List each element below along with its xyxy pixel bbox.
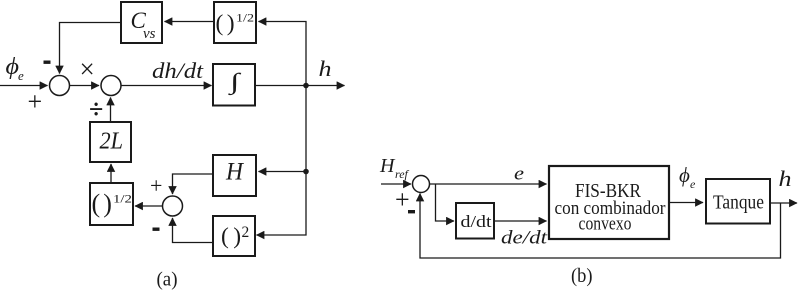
svg-text:vs: vs xyxy=(143,26,156,42)
wire sqrt top to Cvs xyxy=(165,21,215,23)
wire squarer to S2 minus input xyxy=(173,218,214,243)
summing junction S1 xyxy=(50,76,70,96)
svg-text:1/2: 1/2 xyxy=(113,191,132,205)
wire branch to H block xyxy=(259,171,307,173)
svg-text:ϕ: ϕ xyxy=(679,163,690,187)
svg-text:): ) xyxy=(227,11,235,37)
svg-text:(b): (b) xyxy=(571,265,593,287)
wire S1 to multiplier M1 xyxy=(70,85,100,87)
svg-text:Tanque: Tanque xyxy=(713,192,764,214)
wire M1 to integrator xyxy=(121,85,212,87)
squarer block xyxy=(213,216,255,256)
svg-text:h: h xyxy=(319,56,332,81)
gain block Cvs xyxy=(121,2,162,43)
svg-text:+: + xyxy=(395,185,410,214)
block FIS-BKR con combinador convexo xyxy=(549,166,669,239)
label phi_e between FIS and Tanque xyxy=(679,163,696,191)
node junction dot on h line xyxy=(303,83,309,89)
wire input to summing junction S3 xyxy=(381,183,411,185)
wire branch to d/dt xyxy=(436,184,455,221)
sqrt block top xyxy=(214,2,256,43)
svg-text:e: e xyxy=(690,177,696,191)
svg-text:+: + xyxy=(28,87,43,116)
wire d/dt to FIS xyxy=(494,220,547,222)
svg-text:1/2: 1/2 xyxy=(236,10,254,24)
node junction dot at H branch xyxy=(303,169,309,175)
summing junction S2 xyxy=(163,196,183,216)
block Tanque xyxy=(706,179,770,224)
svg-text:(: ( xyxy=(216,11,224,37)
svg-text:2L: 2L xyxy=(100,129,124,155)
wire h feedback up to sqrt block xyxy=(259,22,307,86)
svg-text:2: 2 xyxy=(242,224,250,241)
wire FIS to Tanque xyxy=(669,202,703,204)
wire integrator to output h xyxy=(255,85,345,87)
sqrt block lower xyxy=(90,183,133,225)
label minus at S2 xyxy=(153,228,160,231)
svg-text:dh/dt: dh/dt xyxy=(152,58,204,83)
label H_ref xyxy=(379,155,410,181)
svg-text:ϕ: ϕ xyxy=(6,54,20,80)
svg-text:e: e xyxy=(514,164,524,185)
svg-text:convexo: convexo xyxy=(579,214,632,235)
node phi_e input label xyxy=(6,54,25,83)
summing junction S3 xyxy=(413,176,430,193)
block d/dt xyxy=(456,203,494,239)
wire feedback loop of tank system xyxy=(420,194,781,259)
label minus at S1 xyxy=(44,61,51,64)
svg-text:(: ( xyxy=(92,189,101,218)
wire sqrt lower to 2L xyxy=(110,164,112,183)
svg-text:H: H xyxy=(225,159,245,186)
wire S3 to FIS block (e path) xyxy=(430,183,547,185)
svg-text:): ) xyxy=(233,224,241,250)
svg-text:): ) xyxy=(103,189,112,218)
wire H to S2 plus input xyxy=(173,174,214,194)
svg-text:+: + xyxy=(150,173,162,198)
gain block H xyxy=(213,155,256,196)
svg-text:de/dt: de/dt xyxy=(501,228,548,249)
wire Cvs to S1 minus input xyxy=(60,23,122,74)
svg-text:(: ( xyxy=(221,224,229,250)
svg-text:h: h xyxy=(779,166,792,191)
wire 2L to M1 divide input xyxy=(110,98,112,123)
svg-text:ref: ref xyxy=(395,167,410,181)
wire Tanque to output h xyxy=(770,202,797,204)
wire input to summing junction S1 xyxy=(0,85,48,87)
svg-text:H: H xyxy=(379,155,396,177)
wire S2 to sqrt lower xyxy=(135,205,163,207)
svg-text:×: × xyxy=(80,54,95,84)
wire h down to squarer xyxy=(257,86,307,236)
svg-text:(a): (a) xyxy=(157,269,178,291)
svg-text:∫: ∫ xyxy=(227,69,242,96)
svg-text:d/dt: d/dt xyxy=(461,212,492,231)
label minus at S3 xyxy=(408,210,415,213)
svg-text:÷: ÷ xyxy=(89,95,103,124)
gain block 2L xyxy=(90,122,131,162)
integrator block xyxy=(213,64,255,106)
svg-text:e: e xyxy=(18,68,24,83)
multiplier junction M1 xyxy=(101,76,121,96)
